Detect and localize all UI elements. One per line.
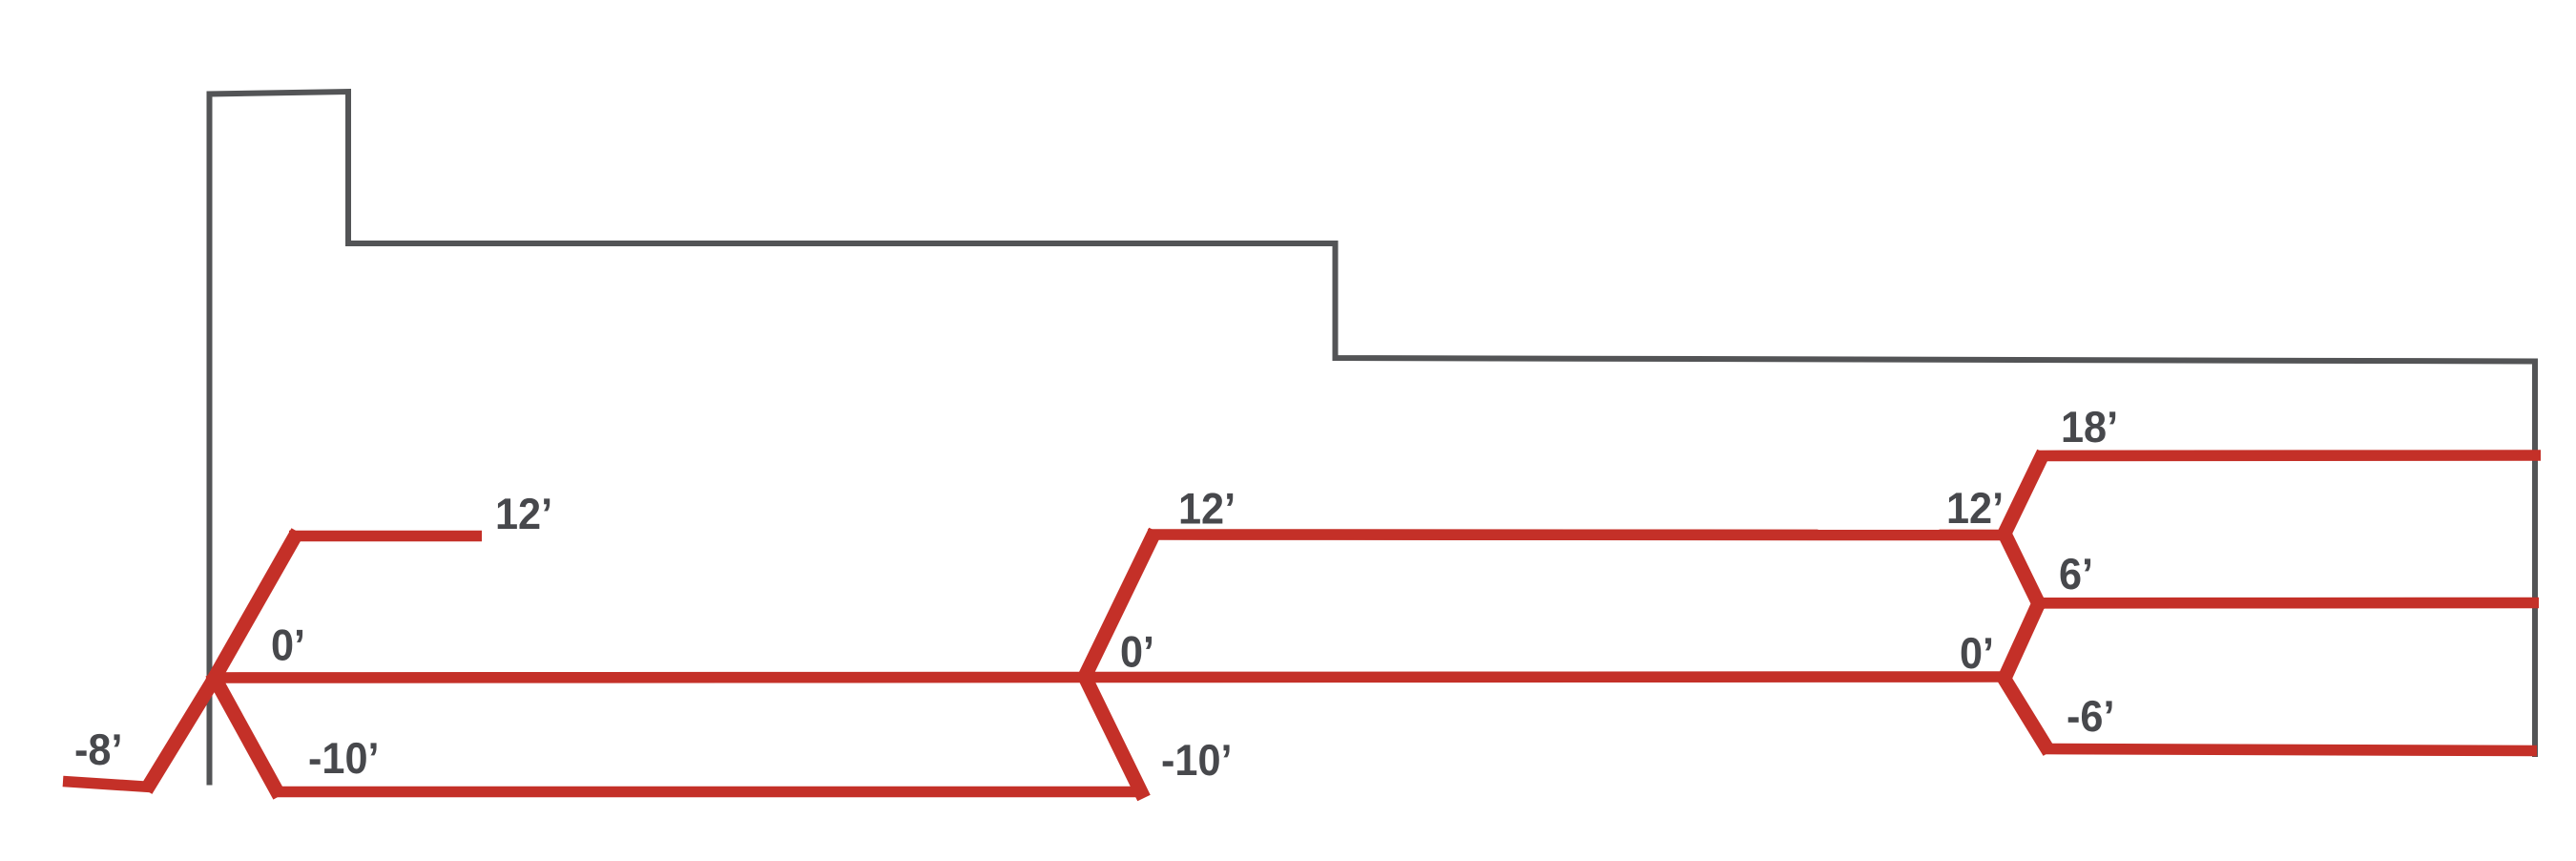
wire 12' left shelf: [289, 531, 482, 542]
ramp -8' up to node J1: [146, 675, 217, 790]
svg-text:12’: 12’: [1178, 484, 1236, 534]
wire 12' middle line: [1148, 529, 2004, 540]
wire 6' line: [2032, 598, 2539, 609]
ramp 12' fork up to 18' line: [2002, 452, 2044, 539]
svg-text:0’: 0’: [1960, 628, 1994, 678]
svg-text:0’: 0’: [271, 620, 305, 670]
svg-text:18’: 18’: [2061, 402, 2118, 451]
building outline (gray stepped profile): [210, 92, 2536, 786]
wire -8' approach: [63, 782, 151, 787]
svg-text:12’: 12’: [495, 489, 552, 538]
ramp 0' fork up to 6' line: [2003, 597, 2042, 682]
ramp node J1 up to 12' left shelf: [212, 532, 298, 682]
ramp node J2 up to 12' middle line: [1082, 531, 1155, 682]
svg-text:12’: 12’: [1946, 483, 2004, 533]
svg-text:-8’: -8’: [74, 724, 122, 774]
wire -10' line: [274, 787, 1142, 798]
ramp node J1 down to -10' line: [212, 673, 280, 796]
wire 0' main line from node J1 to node J3: [215, 677, 2004, 678]
wire -6' line: [2043, 749, 2537, 751]
svg-text:6’: 6’: [2059, 549, 2093, 598]
svg-text:-10’: -10’: [308, 733, 380, 783]
svg-text:0’: 0’: [1120, 627, 1154, 677]
svg-text:-6’: -6’: [2067, 691, 2114, 741]
wire 18' line: [2037, 450, 2541, 461]
ramp 0' fork down to -6' line: [2001, 673, 2049, 752]
svg-text:-10’: -10’: [1161, 735, 1233, 785]
ramp 12' fork down to 6' line: [2003, 530, 2042, 610]
ramp -10' merge up to node J2: [1083, 673, 1144, 798]
